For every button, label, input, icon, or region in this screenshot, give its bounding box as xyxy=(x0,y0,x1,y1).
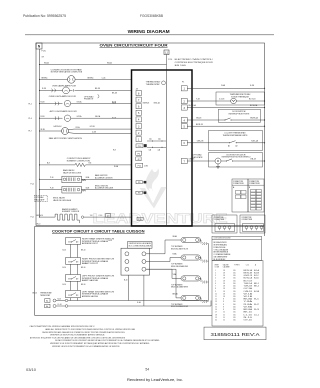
svg-text:BK-1: BK-1 xyxy=(254,283,259,285)
svg-text:318550111 REV:A: 318550111 REV:A xyxy=(211,332,261,337)
svg-text:105: 105 xyxy=(233,288,236,290)
svg-text:105: 105 xyxy=(233,275,236,277)
switch igniter switch S3 xyxy=(66,275,115,283)
svg-text:8: 8 xyxy=(223,301,224,303)
svg-text:BK/R-18: BK/R-18 xyxy=(196,124,203,126)
svg-text:MOTEUR VENTILATION CONVECTION: MOTEUR VENTILATION CONVECTION xyxy=(51,71,83,74)
svg-text:18: 18 xyxy=(215,314,217,316)
node connector P9 xyxy=(136,181,146,185)
svg-text:INTERRUPTEUR MOTEUR VERROU: INTERRUPTEUR MOTEUR VERROU xyxy=(222,157,251,159)
svg-text:BRULE D'ALLUMAGE BROWN: BRULE D'ALLUMAGE BROWN xyxy=(171,305,189,308)
lamp oven light 3 xyxy=(40,110,132,121)
wire cooktop section frame xyxy=(35,227,265,316)
svg-text:ELECTRONIC OVEN CONTROL/: ELECTRONIC OVEN CONTROL/ xyxy=(175,59,214,61)
svg-text:P1-N: P1-N xyxy=(42,51,47,53)
svg-text:8: 8 xyxy=(223,306,224,308)
svg-text:BL/Y-18: BL/Y-18 xyxy=(249,99,255,101)
svg-text:O/B-18: O/B-18 xyxy=(189,159,195,161)
svg-text:FAN MOTORIZED VENTILATION: FAN MOTORIZED VENTILATION xyxy=(49,137,83,140)
svg-text:W-1B: W-1B xyxy=(244,296,253,298)
svg-text:200: 200 xyxy=(233,301,236,303)
inductor broil valve xyxy=(40,185,132,193)
svg-text:BK/W-10: BK/W-10 xyxy=(37,215,43,217)
svg-text:105: 105 xyxy=(233,314,236,316)
node connector P10 xyxy=(136,138,166,152)
svg-text:200: 200 xyxy=(233,286,236,288)
svg-text:18: 18 xyxy=(223,280,225,282)
svg-text:B-1B: B-1B xyxy=(254,272,259,274)
svg-text:B-10: B-10 xyxy=(63,267,66,269)
svg-text:CONNECTEUR: CONNECTEUR xyxy=(242,219,254,221)
svg-text:OVEN CIRCUIT//CIRCUIT FOUR: OVEN CIRCUIT//CIRCUIT FOUR xyxy=(100,43,169,47)
node igniter module board xyxy=(109,240,153,304)
svg-text:20: 20 xyxy=(215,320,217,322)
svg-text:L1-10: L1-10 xyxy=(244,314,253,316)
svg-text:17: 17 xyxy=(215,312,217,314)
svg-text:CONNECTOR/: CONNECTOR/ xyxy=(214,217,225,219)
svg-text:P1-2: P1-2 xyxy=(31,184,34,186)
svg-text:O/B-18: O/B-18 xyxy=(250,159,256,161)
svg-text:OVEN LIGHT/LAMPE DE FOUR: OVEN LIGHT/LAMPE DE FOUR xyxy=(49,95,77,98)
svg-text:COOKTOP CIRCUIT // CIRCUIT TAB: COOKTOP CIRCUIT // CIRCUIT TABLE CUISSON xyxy=(52,229,145,233)
node header xyxy=(23,14,274,35)
svg-text:BK-1A: BK-1A xyxy=(95,115,101,118)
thermistor temperature probe xyxy=(187,92,264,105)
svg-text:GN/W-1A: GN/W-1A xyxy=(250,117,258,120)
svg-text:W-18: W-18 xyxy=(112,118,116,120)
svg-text:N-10: N-10 xyxy=(58,299,62,301)
wire igniter switch chain xyxy=(63,244,86,300)
svg-text:TYPE R: TYPE R xyxy=(234,264,241,266)
switch igniter switch S1 xyxy=(66,238,115,246)
svg-text:19: 19 xyxy=(215,317,217,319)
wire module ground drop xyxy=(128,275,144,306)
node cooktop thermostat xyxy=(33,292,53,297)
node connector J3 pins xyxy=(136,88,161,141)
node part number box xyxy=(204,327,266,340)
svg-text:BRULE D'ALLUMAGE WHITE: BRULE D'ALLUMAGE WHITE xyxy=(171,286,189,289)
svg-text:13: 13 xyxy=(215,301,217,303)
svg-text:105: 105 xyxy=(233,312,236,314)
svg-text:10: 10 xyxy=(223,314,225,316)
svg-text:BR/W-6: BR/W-6 xyxy=(88,77,94,79)
svg-text:VALVE DE GRILLAGE: VALVE DE GRILLAGE xyxy=(53,199,72,202)
svg-text:B-10: B-10 xyxy=(109,240,112,242)
svg-text:BK-1B: BK-1B xyxy=(112,92,118,94)
svg-text:R-8: R-8 xyxy=(113,149,116,151)
node right edge junctions xyxy=(264,88,265,162)
node connector J2 xyxy=(136,157,141,161)
svg-text:P1-6: P1-6 xyxy=(29,118,32,120)
wire W-1A xyxy=(40,61,167,64)
svg-text:1: 1 xyxy=(215,270,216,272)
svg-text:11: 11 xyxy=(215,296,217,298)
svg-text:LABEL ALL WIRES PRIOR TO DISCO: LABEL ALL WIRES PRIOR TO DISCONNECTION W… xyxy=(45,328,136,331)
svg-text:ELEMENT CUISSON: ELEMENT CUISSON xyxy=(62,211,80,213)
svg-text:5: 5 xyxy=(215,280,216,282)
svg-text:ELEMENT CONVECTION: ELEMENT CONVECTION xyxy=(67,160,91,162)
switch lo-light thermostat xyxy=(187,131,264,151)
svg-text:8-3: 8-3 xyxy=(254,309,259,311)
svg-text:GN/W-18: GN/W-18 xyxy=(244,275,253,277)
svg-text:BL/Y-18: BL/Y-18 xyxy=(244,280,253,282)
svg-text:DE RACCORDEMENT DE FILS PEUVEN: DE RACCORDEMENT DE FILS PEUVENT CAUSER U… xyxy=(55,339,161,342)
svg-text:C-10: C-10 xyxy=(99,215,103,217)
svg-text:GY-1A: GY-1A xyxy=(77,115,83,118)
svg-text:105: 105 xyxy=(233,296,236,298)
svg-text:18: 18 xyxy=(223,288,225,290)
svg-text:ARRIERE GAUCHE: ARRIERE GAUCHE xyxy=(82,295,99,298)
node watermark xyxy=(93,169,228,226)
svg-text:105: 105 xyxy=(233,293,236,295)
svg-text:LEADVENTURE: LEADVENTURE xyxy=(93,211,228,226)
svg-text:B-10: B-10 xyxy=(63,284,66,286)
svg-text:COL: COL xyxy=(246,264,249,266)
svg-text:18: 18 xyxy=(223,270,225,272)
ground latch motor ground xyxy=(216,164,220,168)
svg-text:ALLUMEUR GRILLAGE: ALLUMEUR GRILLAGE xyxy=(95,187,114,190)
svg-text:GY-1B: GY-1B xyxy=(90,126,96,128)
wire igniter collector xyxy=(208,244,210,301)
svg-text:TERMOSTAT: TERMOSTAT xyxy=(40,294,50,297)
svg-text:L1-10: L1-10 xyxy=(58,304,62,306)
svg-text:P1: P1 xyxy=(182,82,184,84)
svg-text:BK-10: BK-10 xyxy=(33,293,38,295)
svg-text:BL/W-1A: BL/W-1A xyxy=(250,104,258,107)
svg-text:CONNECTOR/: CONNECTOR/ xyxy=(233,181,244,183)
svg-text:CONTROLE ELECTRONIQUE FOUR: CONTROLE ELECTRONIQUE FOUR xyxy=(175,62,214,64)
svg-text:BK-10: BK-10 xyxy=(81,249,86,251)
svg-text:18: 18 xyxy=(223,296,225,298)
node footer xyxy=(26,367,183,382)
svg-text:BK-10: BK-10 xyxy=(81,284,86,286)
svg-text:C-46: C-46 xyxy=(102,77,106,79)
node top burner B4 xyxy=(171,293,209,309)
wire neutral supply line xyxy=(68,300,209,302)
lamp oven light 2 xyxy=(40,95,132,107)
svg-text:8: 8 xyxy=(223,304,224,306)
svg-text:P-10: P-10 xyxy=(168,59,172,61)
node wire color code table xyxy=(212,236,262,261)
node L1 supply terminal xyxy=(164,50,169,55)
motor door latch xyxy=(187,153,264,168)
wire L1 drop to control xyxy=(167,55,173,71)
svg-text:W-10: W-10 xyxy=(37,224,41,226)
node top burner B1 xyxy=(171,235,209,251)
wire pin3 BL/W-1A xyxy=(187,104,264,107)
svg-text:T-BK-1A: T-BK-1A xyxy=(251,140,259,143)
switch igniter switch S4 xyxy=(66,290,115,298)
svg-text:B-10: B-10 xyxy=(124,280,127,282)
svg-text:18: 18 xyxy=(223,291,225,293)
svg-text:N-10: N-10 xyxy=(244,317,253,319)
svg-text:OVEN LAMP/LAMPE FOUR: OVEN LAMP/LAMPE FOUR xyxy=(52,84,77,87)
svg-text:VERIFIER SI LE FONCTIONNEMENT: VERIFIER SI LE FONCTIONNEMENT EST ADEQUA… xyxy=(50,342,151,345)
svg-text:VERIFIER LE BON FONCTIONNEMENT: VERIFIER LE BON FONCTIONNEMENT APRES SER… xyxy=(50,334,106,337)
svg-text:8: 8 xyxy=(215,288,216,290)
svg-text:105: 105 xyxy=(233,270,236,272)
wire module to B1 xyxy=(146,240,181,254)
node N supply terminal xyxy=(36,43,46,59)
node connector P11 xyxy=(136,163,149,167)
svg-text:PROBE KIT: PROBE KIT xyxy=(84,99,94,101)
wire module to B4 xyxy=(146,269,181,298)
svg-text:Publication No: 5995562575: Publication No: 5995562575 xyxy=(23,14,66,18)
svg-text:8-2: 8-2 xyxy=(254,304,259,306)
svg-text:BLOC CONNECTEUR ALLUMEUR: BLOC CONNECTEUR ALLUMEUR xyxy=(129,245,152,248)
wire module to B3 xyxy=(146,269,181,278)
wire neutral bus xyxy=(39,49,40,218)
inductor bake valve xyxy=(40,169,132,183)
svg-text:BRULE D'ALLUMAGE RED: BRULE D'ALLUMAGE RED xyxy=(171,265,189,268)
svg-text:18: 18 xyxy=(223,278,225,280)
node connector plug right xyxy=(240,215,265,233)
svg-text:8-1: 8-1 xyxy=(254,299,259,301)
svg-text:P-18: P-18 xyxy=(50,187,53,189)
svg-text:CONNECTEUR: CONNECTEUR xyxy=(233,183,245,185)
svg-text:200: 200 xyxy=(233,283,236,285)
svg-text:BK-2: BK-2 xyxy=(254,286,259,288)
svg-text:105: 105 xyxy=(233,320,236,322)
svg-text:3: 3 xyxy=(215,275,216,277)
svg-text:2-Y-18: 2-Y-18 xyxy=(219,99,224,101)
svg-text:105: 105 xyxy=(233,280,236,282)
svg-text:INTERRUPTEUR PORTE: INTERRUPTEUR PORTE xyxy=(229,113,251,115)
svg-text:LATCH/LK: LATCH/LK xyxy=(54,125,63,128)
node notes xyxy=(30,325,161,348)
svg-text:16: 16 xyxy=(215,309,217,311)
svg-text:18: 18 xyxy=(223,283,225,285)
svg-text:W-18: W-18 xyxy=(112,103,116,105)
wire module to B2 xyxy=(146,258,181,262)
svg-text:8: 8 xyxy=(223,309,224,311)
wire pin1 to right edge xyxy=(187,84,264,88)
resistor bake element xyxy=(37,208,132,226)
svg-text:BL BLUE/BLEU: BL BLUE/BLEU xyxy=(214,259,227,261)
svg-text:2: 2 xyxy=(215,272,216,274)
svg-text:CAUSE IMPROPER AND DANGEROUS O: CAUSE IMPROPER AND DANGEROUS OPERATION. … xyxy=(42,331,126,334)
svg-text:P-16: P-16 xyxy=(50,177,53,179)
svg-text:P1-5: P1-5 xyxy=(29,103,32,105)
svg-text:10: 10 xyxy=(223,320,225,322)
svg-text:200: 200 xyxy=(233,299,236,301)
svg-text:BK-1B: BK-1B xyxy=(95,88,101,90)
svg-text:W-1A: W-1A xyxy=(44,61,49,64)
node cooktop title xyxy=(52,229,145,233)
svg-text:18: 18 xyxy=(223,293,225,295)
svg-text:03/10: 03/10 xyxy=(26,368,36,372)
node connector P1 pins 1-7 xyxy=(181,82,187,164)
svg-text:AUTO LIGHT/LAMPE DE FOUR: AUTO LIGHT/LAMPE DE FOUR xyxy=(50,110,78,113)
svg-text:ATTENTION: ETIQUETER TOUS LES: ATTENTION: ETIQUETER TOUS LES FILS AVANT… xyxy=(30,336,126,339)
svg-text:CONNECTOR/: CONNECTOR/ xyxy=(249,181,260,183)
svg-text:ALLUMEUR CUISSON: ALLUMEUR CUISSON xyxy=(95,176,113,179)
svg-text:CODE: CODE xyxy=(215,267,220,269)
wire L1 supply line xyxy=(68,301,211,307)
switch igniter switch S2 xyxy=(66,258,115,266)
svg-text:7: 7 xyxy=(215,286,216,288)
svg-text:BK-10: BK-10 xyxy=(81,267,86,269)
svg-text:18: 18 xyxy=(223,275,225,277)
svg-text:VERIFIER LE BON FONCTIONNEMENT: VERIFIER LE BON FONCTIONNEMENT DE LA COM… xyxy=(52,345,121,348)
node connector table B xyxy=(248,179,264,212)
svg-text:VALVE DE SECOURS: VALVE DE SECOURS xyxy=(63,171,82,174)
svg-text:GY-10: GY-10 xyxy=(244,320,253,322)
svg-text:L-5: L-5 xyxy=(107,216,110,218)
motor door latch xyxy=(40,125,132,140)
node oven circuit title xyxy=(100,43,169,47)
svg-text:T-BK-1B: T-BK-1B xyxy=(197,141,205,143)
svg-text:ARRIERE DROIT: ARRIERE DROIT xyxy=(82,242,98,245)
svg-text:BR-8A: BR-8A xyxy=(173,293,179,296)
svg-text:P1-7: P1-7 xyxy=(29,131,32,133)
svg-text:Y-8: Y-8 xyxy=(90,215,93,217)
node terminal L1 xyxy=(45,304,68,308)
svg-text:9: 9 xyxy=(215,291,216,293)
svg-text:105: 105 xyxy=(233,317,236,319)
svg-text:14: 14 xyxy=(215,304,217,306)
wire pin5 xyxy=(187,124,264,126)
motor convection fan xyxy=(40,68,132,83)
svg-text:10: 10 xyxy=(215,293,217,295)
svg-text:THERMOSTAT BASSE LIMITE: THERMOSTAT BASSE LIMITE xyxy=(223,134,249,137)
svg-text:AVANT GAUCHE: AVANT GAUCHE xyxy=(82,279,99,282)
svg-text:200: 200 xyxy=(233,306,236,308)
svg-text:Y-18: Y-18 xyxy=(196,99,200,101)
svg-text:4: 4 xyxy=(215,278,216,280)
svg-text:Rendered by LeadVenture, Inc.: Rendered by LeadVenture, Inc. xyxy=(127,378,183,382)
svg-text:ES 100: ES 100 xyxy=(175,65,186,67)
svg-text:O/B-18: O/B-18 xyxy=(244,291,253,293)
svg-text:GY-1A: GY-1A xyxy=(77,100,83,103)
svg-text:10: 10 xyxy=(223,317,225,319)
svg-text:18: 18 xyxy=(223,286,225,288)
node connector P15 xyxy=(137,217,143,221)
svg-text:10: 10 xyxy=(223,312,225,314)
svg-text:AVANT DROIT: AVANT DROIT xyxy=(82,262,98,265)
switch door switch xyxy=(187,109,264,122)
svg-text:18: 18 xyxy=(223,272,225,274)
lamp oven light 1 xyxy=(40,84,132,94)
svg-text:15: 15 xyxy=(215,306,217,308)
node row wire labels near EOC xyxy=(112,92,119,168)
svg-text:12: 12 xyxy=(215,299,217,301)
svg-text:CONNECTEUR: CONNECTEUR xyxy=(249,183,261,185)
svg-text:CONNECTOR/: CONNECTOR/ xyxy=(242,217,253,219)
svg-text:W-1A: W-1A xyxy=(107,61,112,64)
svg-text:FACULTATIF: FACULTATIF xyxy=(193,156,203,159)
svg-text:200: 200 xyxy=(233,304,236,306)
svg-text:BR/W-6: BR/W-6 xyxy=(42,77,48,79)
node wire gauge table xyxy=(212,261,263,327)
svg-text:GN-18: GN-18 xyxy=(196,118,201,120)
node connector P6 xyxy=(136,151,142,155)
svg-text:SONDE THERMIQUE: SONDE THERMIQUE xyxy=(231,96,249,98)
svg-text:10-1: 10-1 xyxy=(254,314,259,316)
svg-text:M: M xyxy=(217,159,219,163)
svg-text:BK/W-18: BK/W-18 xyxy=(143,102,149,104)
svg-text:BL/W-1A: BL/W-1A xyxy=(189,104,197,107)
svg-text:6: 6 xyxy=(215,283,216,285)
svg-text:105: 105 xyxy=(233,278,236,280)
svg-text:BK-10: BK-10 xyxy=(244,312,253,314)
svg-text:B-10: B-10 xyxy=(63,249,66,251)
svg-text:105: 105 xyxy=(233,291,236,293)
node connector P7 xyxy=(136,191,146,195)
wire oven section frame xyxy=(36,43,265,226)
node connector table A xyxy=(232,179,248,212)
node top burner B3 xyxy=(171,273,209,289)
svg-text:AL: AL xyxy=(46,305,48,308)
node top burner B2 xyxy=(171,252,209,267)
node connector plug left xyxy=(212,215,237,233)
svg-text:FGGS3065KBB: FGGS3065KBB xyxy=(140,14,164,18)
svg-text:BK/W-1B: BK/W-1B xyxy=(244,272,253,274)
svg-text:B-8: B-8 xyxy=(47,163,50,165)
svg-text:WIRING DIAGRAM: WIRING DIAGRAM xyxy=(128,29,170,34)
svg-text:54: 54 xyxy=(145,367,149,371)
svg-text:WIRE: WIRE xyxy=(215,264,219,266)
svg-text:T-BK-1B: T-BK-1B xyxy=(244,286,253,288)
svg-text:8: 8 xyxy=(223,299,224,301)
resistor convection element xyxy=(40,158,132,167)
node terminal N xyxy=(45,299,68,303)
svg-text:CAUTION/ATTENTION: WIRING DIAG: CAUTION/ATTENTION: WIRING DIAGRAM SPECIF… xyxy=(30,325,96,328)
op-amp electronic oven control EOC xyxy=(132,59,214,226)
svg-text:COLOR CODE/CODE COULEUR: COLOR CODE/CODE COULEUR xyxy=(214,238,231,240)
svg-text:BRULE D'ALLUMAGE YELLOW: BRULE D'ALLUMAGE YELLOW xyxy=(171,247,188,250)
node frame edge labels xyxy=(29,103,34,218)
svg-text:P1-1: P1-1 xyxy=(31,217,34,219)
svg-text:B-1B: B-1B xyxy=(86,187,90,189)
svg-text:CONNECTEUR: CONNECTEUR xyxy=(214,219,226,221)
node optional box xyxy=(34,195,72,202)
svg-text:200: 200 xyxy=(233,309,236,311)
svg-text:AL: AL xyxy=(46,300,48,303)
svg-text:R-8: R-8 xyxy=(89,163,92,165)
svg-text:105: 105 xyxy=(233,272,236,274)
